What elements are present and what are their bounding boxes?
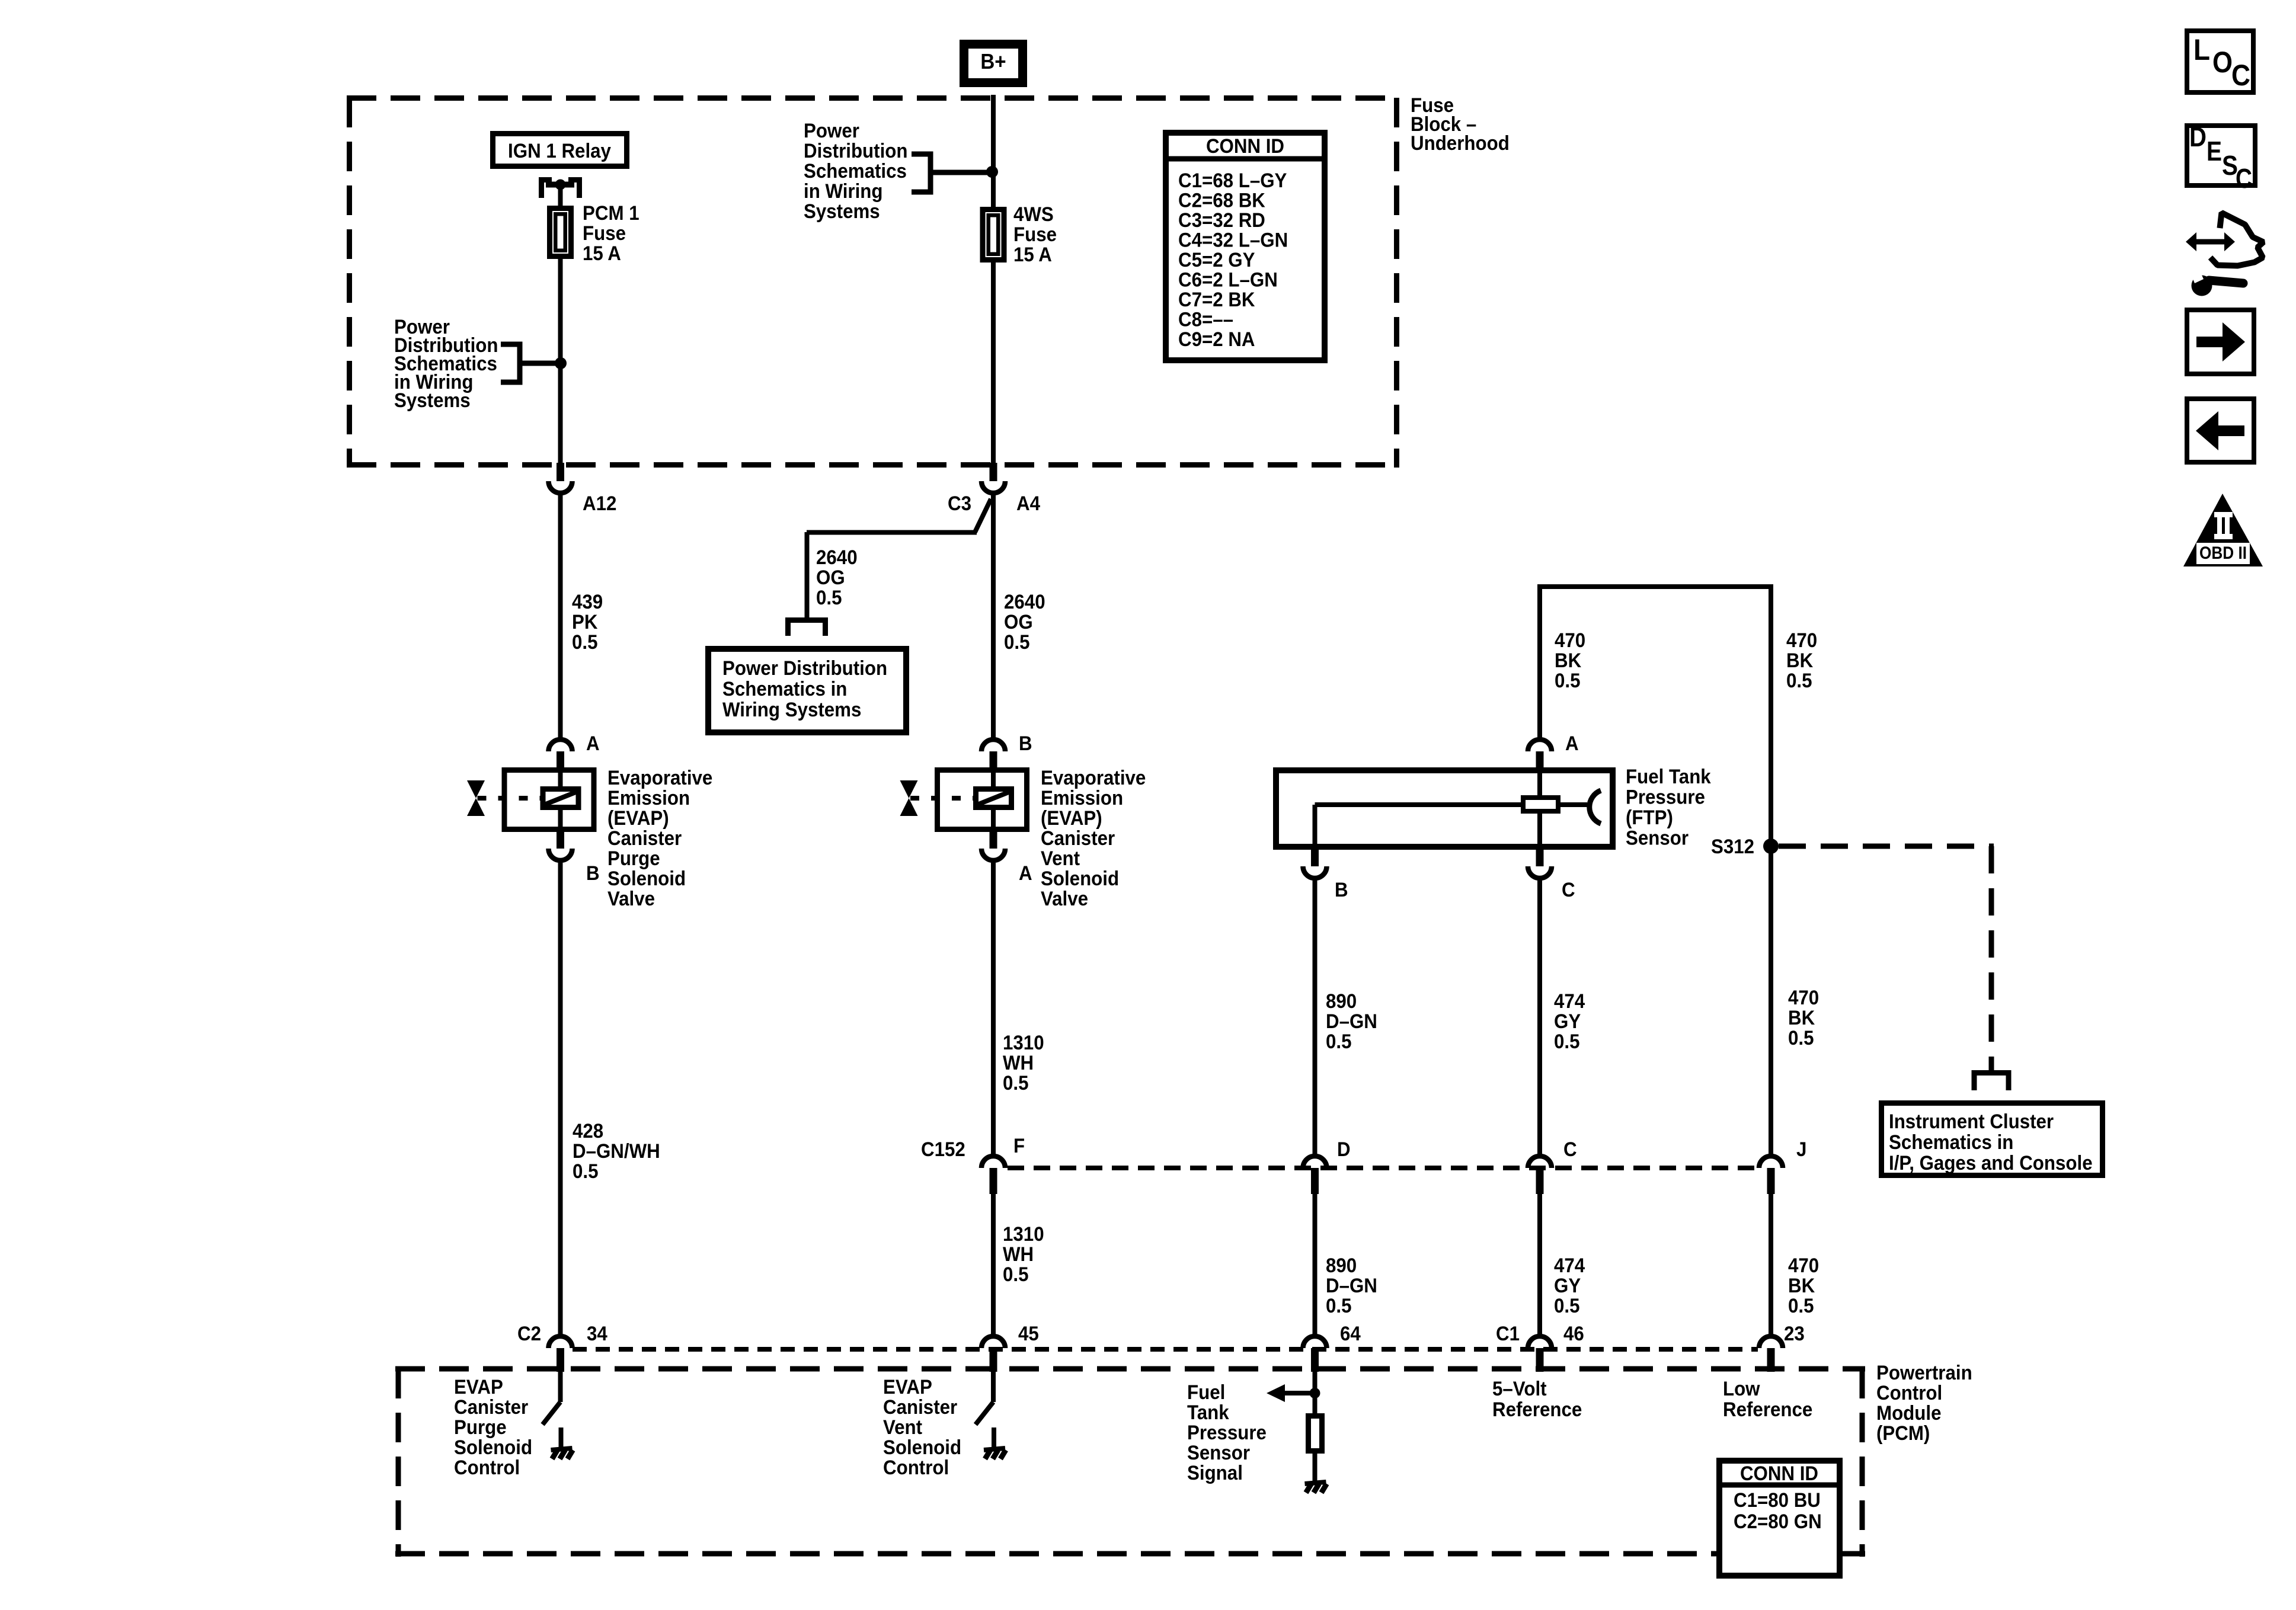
- svg-text:A: A: [1019, 862, 1032, 885]
- svg-text:Sensor: Sensor: [1626, 827, 1689, 850]
- svg-text:34: 34: [587, 1323, 607, 1345]
- svg-text:CONN ID: CONN ID: [1206, 135, 1284, 158]
- svg-text:890: 890: [1326, 1254, 1357, 1277]
- svg-text:Fuel Tank: Fuel Tank: [1626, 766, 1711, 788]
- svg-text:474: 474: [1554, 990, 1585, 1013]
- svg-text:B: B: [1335, 879, 1348, 901]
- svg-text:Solenoid: Solenoid: [454, 1436, 532, 1459]
- svg-text:64: 64: [1340, 1323, 1361, 1345]
- svg-text:(FTP): (FTP): [1626, 806, 1673, 829]
- svg-text:Schematics in: Schematics in: [722, 678, 847, 700]
- svg-text:C9=2 NA: C9=2 NA: [1178, 328, 1255, 351]
- svg-text:Signal: Signal: [1187, 1462, 1243, 1484]
- svg-text:B: B: [1019, 732, 1032, 755]
- svg-text:Valve: Valve: [607, 888, 655, 910]
- svg-text:BK: BK: [1788, 1275, 1815, 1297]
- svg-text:0.5: 0.5: [1554, 1030, 1580, 1053]
- svg-text:0.5: 0.5: [1554, 1295, 1580, 1317]
- svg-text:Canister: Canister: [454, 1396, 528, 1419]
- svg-text:890: 890: [1326, 990, 1357, 1013]
- svg-text:0.5: 0.5: [1326, 1030, 1352, 1053]
- svg-text:Wiring Systems: Wiring Systems: [722, 699, 861, 721]
- svg-text:474: 474: [1554, 1254, 1585, 1277]
- svg-text:C5=2 GY: C5=2 GY: [1178, 249, 1255, 271]
- svg-text:EVAP: EVAP: [883, 1376, 932, 1398]
- svg-text:WH: WH: [1003, 1243, 1034, 1266]
- svg-text:Canister: Canister: [1041, 827, 1115, 850]
- svg-text:0.5: 0.5: [1003, 1072, 1029, 1094]
- svg-text:OG: OG: [1004, 611, 1033, 633]
- svg-text:L: L: [2193, 33, 2210, 66]
- svg-text:OBD II: OBD II: [2199, 543, 2247, 563]
- svg-text:D: D: [2189, 121, 2207, 152]
- svg-text:Solenoid: Solenoid: [883, 1436, 961, 1459]
- svg-text:Vent: Vent: [883, 1416, 922, 1439]
- svg-text:0.5: 0.5: [573, 1160, 599, 1183]
- svg-text:46: 46: [1563, 1323, 1584, 1345]
- svg-text:Underhood: Underhood: [1411, 132, 1510, 155]
- svg-text:0.5: 0.5: [572, 631, 598, 654]
- svg-text:EVAP: EVAP: [454, 1376, 503, 1398]
- svg-text:23: 23: [1784, 1323, 1805, 1345]
- svg-text:Evaporative: Evaporative: [1041, 767, 1146, 789]
- svg-text:Pressure: Pressure: [1187, 1422, 1267, 1444]
- svg-text:Distribution: Distribution: [804, 140, 908, 162]
- svg-text:BK: BK: [1786, 649, 1814, 672]
- svg-text:470: 470: [1788, 1254, 1819, 1277]
- svg-text:Reference: Reference: [1492, 1398, 1582, 1421]
- svg-text:0.5: 0.5: [1786, 670, 1812, 692]
- svg-text:5–Volt: 5–Volt: [1492, 1378, 1547, 1400]
- svg-text:0.5: 0.5: [1004, 631, 1030, 654]
- svg-text:0.5: 0.5: [1326, 1295, 1352, 1317]
- svg-text:Purge: Purge: [607, 847, 660, 870]
- svg-text:Power: Power: [804, 120, 859, 142]
- svg-text:B+: B+: [980, 49, 1006, 73]
- svg-text:Fuel: Fuel: [1187, 1381, 1225, 1404]
- svg-text:C152: C152: [921, 1138, 965, 1161]
- svg-text:D–GN: D–GN: [1326, 1275, 1377, 1297]
- svg-text:C7=2 BK: C7=2 BK: [1178, 289, 1255, 311]
- svg-text:Fuse: Fuse: [1013, 223, 1057, 246]
- svg-text:PK: PK: [572, 611, 598, 633]
- svg-text:A: A: [1565, 732, 1579, 755]
- svg-text:F: F: [1013, 1135, 1025, 1157]
- svg-text:B: B: [586, 862, 600, 885]
- svg-text:Control: Control: [454, 1457, 520, 1479]
- svg-text:Control: Control: [883, 1457, 949, 1479]
- svg-text:0.5: 0.5: [1003, 1263, 1029, 1286]
- svg-text:Fuse: Fuse: [583, 222, 626, 245]
- svg-text:2640: 2640: [1004, 591, 1045, 613]
- svg-text:IGN 1 Relay: IGN 1 Relay: [508, 140, 611, 162]
- svg-text:C3=32 RD: C3=32 RD: [1178, 209, 1265, 232]
- svg-text:Schematics in: Schematics in: [1889, 1131, 2013, 1154]
- svg-text:A12: A12: [583, 492, 616, 515]
- svg-text:Reference: Reference: [1723, 1398, 1812, 1421]
- svg-text:0.5: 0.5: [1788, 1295, 1814, 1317]
- svg-text:in Wiring: in Wiring: [804, 180, 883, 203]
- svg-text:C: C: [1562, 879, 1575, 901]
- svg-text:C1=68 L–GY: C1=68 L–GY: [1178, 169, 1287, 192]
- svg-text:2640: 2640: [816, 546, 858, 569]
- svg-text:0.5: 0.5: [816, 587, 842, 609]
- svg-text:4WS: 4WS: [1013, 203, 1054, 226]
- svg-text:(EVAP): (EVAP): [607, 807, 669, 830]
- svg-text:Module: Module: [1876, 1402, 1942, 1425]
- svg-text:Valve: Valve: [1041, 888, 1088, 910]
- svg-text:0.5: 0.5: [1788, 1027, 1814, 1049]
- svg-text:15 A: 15 A: [1013, 244, 1052, 266]
- svg-text:O: O: [2212, 46, 2233, 79]
- svg-text:C6=2 L–GN: C6=2 L–GN: [1178, 269, 1278, 292]
- svg-text:Solenoid: Solenoid: [1041, 868, 1119, 890]
- svg-text:(EVAP): (EVAP): [1041, 807, 1102, 830]
- svg-text:(PCM): (PCM): [1876, 1422, 1930, 1445]
- svg-text:Tank: Tank: [1187, 1401, 1229, 1424]
- svg-text:Schematics: Schematics: [804, 160, 907, 183]
- svg-text:Canister: Canister: [883, 1396, 957, 1419]
- svg-text:A4: A4: [1016, 492, 1040, 515]
- svg-text:C4=32 L–GN: C4=32 L–GN: [1178, 229, 1288, 252]
- svg-text:D–GN/WH: D–GN/WH: [573, 1140, 660, 1163]
- svg-text:Instrument Cluster: Instrument Cluster: [1889, 1110, 2054, 1133]
- svg-text:E: E: [2207, 136, 2222, 167]
- svg-text:Emission: Emission: [1041, 787, 1123, 809]
- svg-text:Sensor: Sensor: [1187, 1442, 1250, 1464]
- svg-text:Low: Low: [1723, 1378, 1760, 1400]
- svg-text:Purge: Purge: [454, 1416, 507, 1439]
- svg-text:C: C: [1563, 1138, 1577, 1161]
- svg-text:C: C: [2236, 163, 2252, 194]
- svg-text:C1: C1: [1496, 1323, 1520, 1345]
- svg-text:Power Distribution: Power Distribution: [722, 657, 887, 680]
- svg-text:45: 45: [1018, 1323, 1039, 1345]
- svg-text:Solenoid: Solenoid: [607, 868, 686, 890]
- svg-text:C1=80 BU: C1=80 BU: [1734, 1489, 1821, 1512]
- svg-text:Pressure: Pressure: [1626, 786, 1705, 809]
- svg-text:428: 428: [573, 1120, 603, 1142]
- svg-text:1310: 1310: [1003, 1032, 1044, 1054]
- svg-text:470: 470: [1788, 987, 1819, 1009]
- svg-text:BK: BK: [1788, 1007, 1815, 1029]
- svg-text:Vent: Vent: [1041, 847, 1080, 870]
- svg-text:Powertrain: Powertrain: [1876, 1362, 1972, 1384]
- svg-text:D–GN: D–GN: [1326, 1010, 1377, 1033]
- svg-text:BK: BK: [1555, 649, 1582, 672]
- svg-text:CONN ID: CONN ID: [1740, 1462, 1818, 1485]
- svg-text:C2=80 GN: C2=80 GN: [1734, 1510, 1822, 1533]
- svg-text:C2=68 BK: C2=68 BK: [1178, 190, 1265, 212]
- svg-text:Systems: Systems: [394, 389, 471, 412]
- svg-text:Evaporative: Evaporative: [607, 767, 712, 789]
- svg-text:J: J: [1796, 1138, 1806, 1161]
- svg-text:1310: 1310: [1003, 1223, 1044, 1246]
- svg-text:C3: C3: [948, 492, 971, 515]
- svg-text:439: 439: [572, 591, 603, 613]
- svg-text:S312: S312: [1711, 836, 1754, 858]
- svg-text:A: A: [586, 732, 600, 755]
- svg-text:GY: GY: [1554, 1010, 1581, 1033]
- svg-text:Systems: Systems: [804, 200, 880, 223]
- svg-text:I/P, Gages and Console: I/P, Gages and Console: [1889, 1152, 2093, 1174]
- svg-text:Canister: Canister: [607, 827, 682, 850]
- svg-text:D: D: [1337, 1138, 1351, 1161]
- svg-text:470: 470: [1786, 629, 1817, 652]
- svg-text:Control: Control: [1876, 1382, 1942, 1404]
- svg-text:15 A: 15 A: [583, 242, 621, 265]
- svg-text:470: 470: [1555, 629, 1585, 652]
- svg-text:GY: GY: [1554, 1275, 1581, 1297]
- svg-text:C8=––: C8=––: [1178, 309, 1233, 331]
- svg-text:Emission: Emission: [607, 787, 690, 809]
- svg-text:OG: OG: [816, 566, 845, 589]
- svg-text:PCM 1: PCM 1: [583, 202, 639, 225]
- svg-text:C2: C2: [517, 1323, 541, 1345]
- svg-text:0.5: 0.5: [1555, 670, 1581, 692]
- svg-text:C: C: [2231, 59, 2250, 92]
- svg-text:WH: WH: [1003, 1052, 1034, 1074]
